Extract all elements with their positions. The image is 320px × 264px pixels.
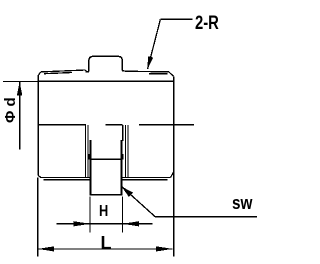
middle horizontal line B <box>91 158 120 160</box>
leader 2-R: arrowhead <box>148 56 154 69</box>
bottom flat arc line left (inner) <box>44 179 90 181</box>
dim H: dimension line <box>56 223 152 225</box>
dim L: left arrow (pointing left) <box>38 246 55 251</box>
dim L: dimension line <box>38 248 173 250</box>
boss right step <box>122 70 125 73</box>
top-left chamfer <box>38 72 41 76</box>
dim H: extension line right <box>122 197 124 233</box>
bottom-left chamfer <box>38 175 41 177</box>
bottom edge outer left <box>41 176 90 178</box>
leader sw: diagonal <box>122 187 155 217</box>
inner line A right segment (extends past body edge) <box>139 124 194 126</box>
bottom flat arc line right (inner) <box>122 179 167 181</box>
dim L: right arrow (pointing right) <box>156 246 173 251</box>
tab right tick <box>122 154 124 160</box>
dim Phi d: arrow pointing up <box>17 82 22 96</box>
boss (hex corner) outline with 2 rounded corners <box>89 56 122 71</box>
hex tab right side (thick) <box>120 140 122 195</box>
top flat arc line right (inner) <box>149 73 167 75</box>
middle vertical connecting line A to tab right <box>122 125 124 141</box>
left thread end line 2 <box>87 125 89 177</box>
dim L: extension line left <box>37 177 39 256</box>
leader sw: arrowhead <box>122 187 133 198</box>
leader 2-R: diagonal <box>148 19 161 69</box>
label L <box>101 233 112 254</box>
leader sw: horizontal <box>155 216 257 218</box>
body right edge + L right extension line (continuous) <box>173 76 175 256</box>
dim H: extension line left <box>89 197 91 233</box>
boss left step <box>86 70 89 72</box>
inner line A (thread/axis) left segment <box>38 124 86 126</box>
dim Phi d: vertical dimension line <box>19 81 21 149</box>
top flat silhouette right (outer) <box>126 70 169 73</box>
dim extension line for Phi d (left of body, same level as top line) <box>3 80 38 82</box>
bottom-right chamfer <box>171 172 174 177</box>
tab left tick <box>88 154 90 160</box>
label H <box>99 203 108 221</box>
dim H: left arrow (outside, pointing right) <box>74 221 91 226</box>
body left edge <box>37 76 39 176</box>
body top line <box>38 80 174 82</box>
top flat silhouette left (outer) <box>41 70 86 72</box>
top-right chamfer <box>169 72 174 76</box>
leader 2-R: horizontal <box>160 18 192 20</box>
dim H: right arrow (outside, pointing left) <box>123 221 140 226</box>
inner line A middle segment <box>105 124 122 126</box>
hex tab left side (thick) <box>89 140 91 195</box>
label 2-R <box>195 13 219 35</box>
left thread end line 1 <box>85 125 87 177</box>
top flat arc line left (inner) <box>44 73 72 74</box>
hex tab bottom line <box>89 194 122 196</box>
label Phi d (rotated) <box>2 97 19 123</box>
right thread end line 2 <box>127 125 129 177</box>
bottom edge outer right <box>122 176 170 178</box>
label sw <box>232 193 252 214</box>
right thread end line 1 <box>124 125 126 177</box>
